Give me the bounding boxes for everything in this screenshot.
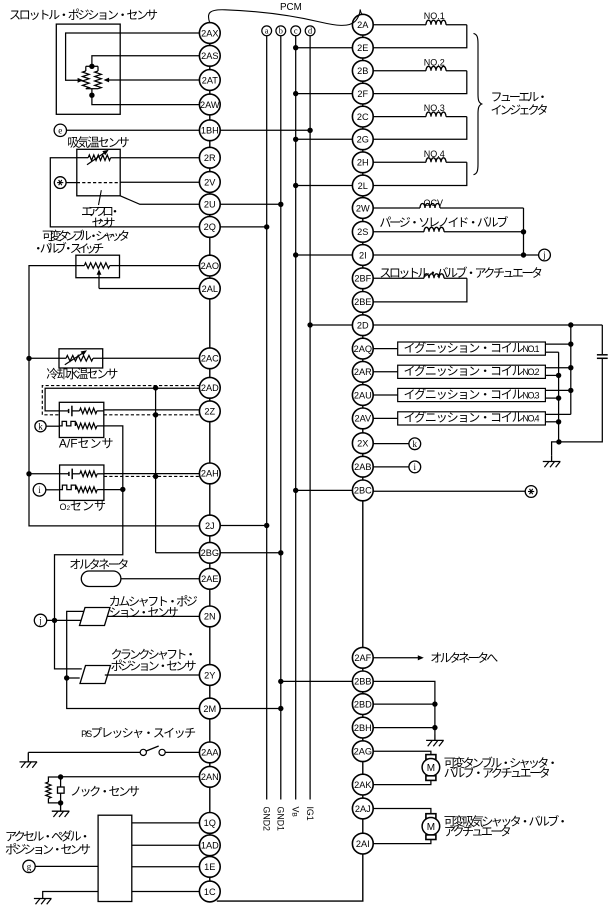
svg-text:2U: 2U <box>204 200 216 210</box>
svg-text:ポジション・センサ: ポジション・センサ <box>111 659 197 673</box>
svg-text:1C: 1C <box>204 887 216 897</box>
svg-text:2R: 2R <box>204 153 216 163</box>
svg-text:a: a <box>265 27 269 36</box>
svg-text:2BD: 2BD <box>354 699 372 709</box>
svg-text:2G: 2G <box>357 135 369 145</box>
svg-text:2BF: 2BF <box>354 274 371 284</box>
svg-text:GND2: GND2 <box>262 807 272 832</box>
svg-text:2BC: 2BC <box>354 486 372 496</box>
svg-text:イグニッション・コイルNO.4: イグニッション・コイルNO.4 <box>404 411 540 425</box>
svg-text:バルブ・アクチュエータ: バルブ・アクチュエータ <box>444 765 551 780</box>
svg-text:2A: 2A <box>357 20 369 30</box>
svg-text:イグニッション・コイルNO.3: イグニッション・コイルNO.3 <box>404 387 540 401</box>
svg-text:2Q: 2Q <box>204 222 216 232</box>
svg-text:2AR: 2AR <box>354 367 372 377</box>
svg-text:2X: 2X <box>357 439 368 449</box>
svg-text:2AU: 2AU <box>354 390 372 400</box>
svg-text:NO.4: NO.4 <box>424 149 445 159</box>
svg-text:2V: 2V <box>204 177 216 187</box>
svg-text:2BG: 2BG <box>201 548 219 558</box>
svg-text:スロットル・ポジション・センサ: スロットル・ポジション・センサ <box>9 8 158 22</box>
svg-text:2AT: 2AT <box>202 75 219 85</box>
svg-text:2AQ: 2AQ <box>354 344 372 354</box>
svg-text:2AC: 2AC <box>201 354 219 364</box>
svg-text:GND1: GND1 <box>276 807 286 832</box>
svg-text:1Q: 1Q <box>204 818 216 828</box>
svg-text:2AX: 2AX <box>201 28 218 38</box>
svg-text:2F: 2F <box>357 89 368 99</box>
svg-text:NO.1: NO.1 <box>424 11 445 21</box>
svg-text:ポジション・センサ: ポジション・センサ <box>5 842 91 856</box>
svg-text:IG1: IG1 <box>305 807 315 821</box>
svg-text:2B: 2B <box>357 66 368 76</box>
svg-text:2C: 2C <box>357 112 369 122</box>
svg-text:冷却水温センサ: 冷却水温センサ <box>46 367 118 381</box>
svg-text:NO.3: NO.3 <box>424 103 445 113</box>
svg-text:k: k <box>38 421 43 431</box>
svg-text:1BH: 1BH <box>201 126 219 136</box>
svg-text:2BB: 2BB <box>354 677 371 687</box>
svg-text:2I: 2I <box>359 250 367 260</box>
svg-text:2AJ: 2AJ <box>355 804 371 814</box>
svg-text:k: k <box>413 439 418 449</box>
svg-text:2AS: 2AS <box>201 51 218 61</box>
svg-text:ノック・センサ: ノック・センサ <box>70 785 140 799</box>
svg-text:2AN: 2AN <box>201 772 219 782</box>
svg-text:センサ: センサ <box>92 216 116 230</box>
svg-text:M: M <box>427 763 435 774</box>
svg-text:b: b <box>279 27 283 36</box>
svg-text:A/Fセンサ: A/Fセンサ <box>59 437 114 451</box>
svg-text:オルタネータ: オルタネータ <box>69 557 129 571</box>
svg-text:2AF: 2AF <box>354 653 371 663</box>
svg-text:2AL: 2AL <box>202 284 218 294</box>
svg-text:g: g <box>27 862 32 872</box>
svg-text:1AD: 1AD <box>201 841 219 851</box>
svg-text:2J: 2J <box>205 521 215 531</box>
svg-text:2AG: 2AG <box>354 747 372 757</box>
svg-text:2BH: 2BH <box>354 723 372 733</box>
svg-text:インジェクタ: インジェクタ <box>491 103 549 117</box>
svg-text:2AV: 2AV <box>354 414 372 424</box>
svg-text:P/Sプレッシャ・スイッチ: P/Sプレッシャ・スイッチ <box>81 726 196 740</box>
svg-text:イグニッション・コイルNO.2: イグニッション・コイルNO.2 <box>404 364 540 378</box>
svg-text:イグニッション・コイルNO.1: イグニッション・コイルNO.1 <box>404 341 540 355</box>
svg-text:2D: 2D <box>357 321 369 331</box>
svg-text:2E: 2E <box>357 43 368 53</box>
svg-text:アクチュエータ: アクチュエータ <box>444 825 512 839</box>
svg-text:M: M <box>427 822 435 833</box>
svg-text:2BE: 2BE <box>354 297 371 307</box>
svg-text:2AE: 2AE <box>201 574 218 584</box>
svg-text:2L: 2L <box>358 181 368 191</box>
svg-text:2S: 2S <box>357 227 368 237</box>
svg-text:NO.2: NO.2 <box>424 57 445 67</box>
svg-text:2AI: 2AI <box>356 839 370 849</box>
svg-text:2AO: 2AO <box>201 261 219 271</box>
svg-text:PCM: PCM <box>280 2 302 13</box>
svg-text:2AB: 2AB <box>354 462 371 472</box>
svg-text:2N: 2N <box>204 612 216 622</box>
svg-text:2AH: 2AH <box>201 469 219 479</box>
svg-text:フューエル・: フューエル・ <box>491 90 549 104</box>
svg-text:j: j <box>542 250 546 260</box>
svg-text:2AK: 2AK <box>354 780 372 790</box>
svg-text:2Y: 2Y <box>204 670 215 680</box>
svg-text:j: j <box>38 616 42 626</box>
svg-text:e: e <box>58 125 62 135</box>
svg-text:2AD: 2AD <box>201 383 219 393</box>
svg-text:ション・センサ: ション・センサ <box>109 606 179 620</box>
svg-text:パージ・ソレノイド・バルブ: パージ・ソレノイド・バルブ <box>379 214 508 229</box>
svg-text:2M: 2M <box>203 704 216 714</box>
svg-text:オルタネータへ: オルタネータへ <box>430 651 498 665</box>
svg-text:2AA: 2AA <box>201 748 219 758</box>
svg-text:・バルブ・スイッチ: ・バルブ・スイッチ <box>32 241 104 256</box>
svg-text:2W: 2W <box>356 203 370 213</box>
svg-text:2AW: 2AW <box>200 100 220 110</box>
svg-text:2Z: 2Z <box>204 407 215 417</box>
svg-text:吸気温センサ: 吸気温センサ <box>67 135 130 150</box>
svg-text:c: c <box>294 27 298 36</box>
svg-text:2H: 2H <box>357 158 369 168</box>
svg-text:1E: 1E <box>204 862 215 872</box>
